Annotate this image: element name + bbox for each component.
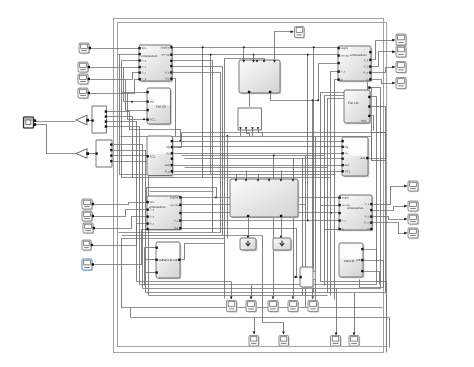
wire C2 b3 [252,131,254,137]
wire band fill2 [185,167,328,169]
svg-text:SCL: SCL [345,169,351,173]
svg-text:ATMEGA8535: ATMEGA8535 [141,55,158,58]
wire cbusA v1 [302,159,304,296]
wire rloop box [372,133,386,161]
wire bottom h1 [137,281,232,283]
wire R2 o4 [371,116,374,131]
wire loop boundary A [114,19,384,353]
block C2 white subsystem [238,108,262,130]
svg-text:P_b: P_b [142,66,147,69]
wire R1 to d2 [372,52,394,67]
svg-text:O: O [367,228,369,231]
block A1 mcu subsystem [138,45,173,82]
wire R1 to d4 [372,80,394,84]
wire band h3 [185,158,343,160]
wire f3 feed [273,156,275,299]
block C1 display subsystem [239,60,281,94]
svg-text:ATMEGA8535: ATMEGA8535 [149,206,166,209]
wire m1 o4 down [107,127,140,285]
wire R1 bottom to R2 [367,82,369,91]
junction A2 p3 [143,118,145,120]
arrowhead e3 [404,218,407,221]
block C4 sink [240,238,257,251]
svg-text:P_y: P_y [174,220,179,223]
block s4 source [78,88,90,99]
wire bus to A2 p1 [124,101,148,103]
wire A4 feedback loop [147,188,217,203]
block A2 function library [146,88,171,125]
wire R4 p5 feed [325,229,340,231]
junction sevsig right [307,54,309,56]
svg-text:Pu: Pu [166,151,170,155]
svg-text:sev sig: sev sig [341,55,350,58]
svg-text:ATMEGA8535: ATMEGA8535 [347,207,364,210]
block s3 source [78,74,90,85]
wire A5 in3 [145,272,157,274]
wire s2 to A1 [90,67,140,69]
arrowhead e4 [404,232,407,235]
junction A4 loop [215,196,217,198]
wire A1 out6 drop [173,79,176,137]
block R2 fcn library mirrored [344,86,371,124]
svg-text:Pu: Pu [345,151,349,155]
block f2 scope [246,301,257,313]
svg-text:P_a: P_a [142,60,147,63]
wire R2 o2 [371,96,377,98]
block t1 gain flipped [76,115,89,125]
wire band h7 [122,177,331,179]
wire band h2 [173,153,343,155]
wire A4 loop h2 [150,191,214,193]
arrowhead C4 [247,236,250,239]
arrowhead g1 [253,332,256,335]
wire band fill1 [182,155,325,157]
wire segout mid drop [202,48,204,178]
wire C2 b4 [259,131,263,137]
wire rloop v3 [380,88,382,289]
svg-text:P_c: P_c [150,223,155,226]
svg-text:ATMEGA8535: ATMEGA8535 [350,54,367,57]
block e3 scope [408,214,419,225]
wire t1 to m1 [88,120,93,122]
wire C2 b2 [247,131,250,137]
wire to f1 [231,282,233,299]
wire cbusB v2 [325,96,345,286]
wire drop C1 t1 [243,48,245,63]
wire bus to A2 p3 [128,119,148,121]
svg-text:Out: Out [165,78,169,81]
wire R5 o2 [360,261,384,288]
wire A3 p1 band [173,133,182,148]
wire bottom h7 rise [130,308,132,318]
wire net sevsig [173,54,339,56]
svg-text:SegOut: SegOut [161,46,170,49]
block s5 source [82,199,94,210]
block R5 part library mirrored [339,243,364,278]
block s2 source [78,62,90,73]
wire left bus v1 [119,55,121,175]
block f3 scope [268,301,279,313]
svg-text:out: out [356,258,360,262]
wire bottom h6 [122,239,383,308]
wire A1 out5 drop [173,73,221,233]
arrowhead g2 [282,332,285,335]
wire belowA4 h3 [122,238,225,240]
svg-text:SCL: SCL [142,47,148,50]
arrowhead f3 [272,297,275,300]
block d4 scope [396,78,407,90]
arrowhead f5 [311,297,314,300]
svg-text:SCL: SCL [361,119,367,123]
svg-text:Part Lib: Part Lib [344,259,355,263]
wire s7 to A4 [94,217,148,229]
arrowhead d1 [392,39,395,42]
svg-text:SCL: SCL [150,154,156,158]
wire s3 to A1 [90,73,140,80]
block A3 interface subsystem [146,136,173,177]
block A5 part library [155,242,181,279]
wire R4 to e2 [373,207,406,211]
block R4 mcu mirrored 2 [338,195,373,231]
wire src to t1 [34,121,76,123]
svg-text:Part Lib: Part Lib [162,258,173,262]
wire band h0c [173,141,343,143]
wire belowA4 h1 [119,232,221,234]
wire C6 feed [275,32,293,63]
block src signal builder [24,117,37,128]
svg-text:Fcn Lib: Fcn Lib [348,101,359,105]
wire R3 out [369,158,386,160]
wire cbusB v1 [321,93,387,282]
wire s9 to A4 [93,230,148,265]
wire left bus v2 [121,61,123,178]
block s1 source [79,43,91,54]
wire R2 o3 [371,106,386,108]
ports R2 right [361,96,370,123]
wire right edge w2 [389,318,391,348]
wire R2 o1 [371,87,381,89]
wire gap v 227 [227,137,229,239]
wire s5 to A4 [93,203,148,205]
wire s1 to A1 [91,48,140,50]
svg-text:P_w: P_w [364,222,369,225]
wire cbusA v3 from sevsig [307,55,309,221]
svg-text:P_w: P_w [363,72,368,75]
block h2 scope [349,336,360,348]
wire R1 p3 riser [319,64,339,101]
block h1 scope [331,336,342,348]
svg-text:SegIN: SegIN [341,47,348,50]
wire A5 in1 [145,247,157,249]
block f5 scope [308,301,319,313]
wire t2 to m2 [88,153,97,155]
svg-text:SCL: SCL [150,118,156,122]
wire to h1 [336,289,338,335]
block C3 main subsystem [230,179,299,218]
svg-text:sev sig: sev sig [161,54,170,57]
wire band h1 [173,146,343,148]
junction segout drop [243,46,245,48]
wire R5 o1 [364,250,377,263]
wire m2 o1 down [114,145,143,289]
block d3 scope [396,62,407,74]
wire src to t2 [34,125,76,154]
wire to g2 [263,236,284,334]
wire loop boundary B [118,23,387,347]
wire R4 to e4 [373,223,406,234]
arrowhead h1 [335,333,338,336]
svg-text:aux: aux [361,156,366,160]
svg-text:SegOut: SegOut [170,196,179,199]
wire A4 out4 [182,220,309,222]
svg-text:P_y: P_y [165,71,170,74]
junction gap v 227 [227,135,229,137]
block m1 demux [91,106,107,133]
block s7 source [83,223,95,234]
wire net segout [173,47,339,49]
wire band h5 [173,171,343,173]
block s8 source [82,240,93,251]
wire band h4 [173,165,343,167]
wire to g1 [254,318,256,334]
block e1 scope [408,181,419,192]
wire cbusA v4 from segout [313,48,315,293]
wire cbusB v3 [328,99,345,293]
wire R4 to e3 [373,217,406,220]
svg-text:O: O [366,78,368,81]
wire m2 o4 down [114,162,149,296]
wire drop C3 t1 [236,175,238,182]
svg-text:osc: osc [150,100,155,104]
wire bottom h2 [140,284,377,286]
wire A1 out4 drop [173,67,223,236]
wire s8 to A4 [92,224,148,246]
block C6 scope [295,27,306,39]
wire rloop v4 [385,107,387,293]
svg-text:out: out [173,258,177,262]
svg-text:Out: Out [174,227,178,230]
block f4 scope [288,301,299,313]
junction segout mid [202,46,204,48]
svg-text:Ny: Ny [166,145,170,149]
wire C1 to C2 [249,94,251,107]
wire bus to A2 p0 [122,92,148,94]
wire drop C3 t4 [269,178,271,182]
wire belowA4 h2 [122,235,263,237]
wire bus to A2 p2 [126,110,148,112]
svg-text:P_z: P_z [341,71,346,74]
wire C2 b1 [240,131,242,137]
wire band h0b [121,136,372,138]
svg-text:P_a: P_a [150,209,155,212]
wire to h2 [354,293,356,335]
wire R1 to d1 [372,41,394,60]
wire big loop C1 t3 [225,59,265,299]
svg-text:Fcn Lib: Fcn Lib [156,105,166,109]
wire m2 o2 down [114,151,146,293]
block e2 scope [408,201,419,212]
wire C1 out2 [271,94,319,101]
arrowhead f1 [230,297,233,300]
wire bottom h7 [131,317,390,319]
arrowhead d4 [392,82,395,85]
junction segout right [313,46,315,48]
wire bottom h5 [149,295,328,297]
junction f3 feed [273,155,275,157]
block R3 interface mirrored [341,137,369,177]
svg-text:Ny: Ny [345,145,349,149]
wire m1 o2 down [107,117,133,178]
wire R4 p2 feed [321,205,340,207]
junction R4 p4 [307,220,309,222]
svg-text:P_1: P_1 [364,59,369,62]
svg-text:P_2: P_2 [365,216,370,219]
svg-text:aux: aux [345,163,350,167]
block R1 mcu mirrored [337,46,372,82]
wire bottom h4 [146,292,386,294]
icon C5 down arrow [280,241,284,246]
wire s4 to A1 [90,80,140,94]
wire A5 in2 [145,259,157,261]
wire drop C3 t5 [281,171,283,182]
wire rloop v2 [376,97,378,285]
wire to f2 [251,285,253,299]
wire R4 to e1 [373,187,406,205]
svg-text:P_z: P_z [342,220,347,223]
wire A4 segout to R4 [182,197,340,199]
wire A5 out loop [181,244,225,260]
svg-text:P_2: P_2 [364,66,369,69]
wire band h0a [182,132,386,134]
arrowhead f4 [292,297,295,300]
wire drop C1 t2 [253,55,255,63]
svg-text:P_1: P_1 [365,203,370,206]
arrowhead C5 [280,236,283,239]
junction f5 feed [312,99,314,101]
wire drop C3 t3 [258,175,260,182]
wire s6 to A4 [94,210,148,217]
wire left bus v5 [127,94,129,120]
wire R1 p4 riser [331,72,339,296]
wire A4 out3 [182,212,363,214]
wire cbusA v2 [305,156,307,308]
wire drop C3 t6 [293,175,295,182]
arrowhead e2 [404,205,407,208]
block s6 source [82,211,94,222]
junction R1 p3 riser [317,99,319,101]
junction m1o1 h0c [179,140,181,142]
icon C4 down arrow [246,241,250,246]
arrowhead C7 [295,276,298,279]
wire R4 p4 feed [308,220,340,222]
block g2 scope [279,336,290,348]
svg-text:SCL: SCL [150,201,156,204]
arrowhead f2 [250,297,253,300]
block t2 gain flipped [76,149,89,159]
wire left bus v3 [123,68,125,102]
svg-text:sev sig: sev sig [170,204,179,207]
junction A4 out3 [330,212,332,214]
wire rloop v1 [371,88,373,161]
wire R1 p5 riser [335,80,339,300]
wire bus to A1 p2 [118,54,140,56]
wire A4 out2 [182,204,306,206]
wire m2 o3 A3 SCL [114,155,148,157]
wire m1 o1 down [107,112,181,142]
block g1 scope [249,336,260,348]
wire cbusA v5 [315,137,317,301]
wire A1 out3 drop [173,61,213,233]
wire drop C3 t2 [246,171,248,182]
wire R1 to d3 [372,68,394,73]
svg-text:P_b: P_b [150,216,155,219]
svg-text:SegIN: SegIN [342,197,349,200]
wire C3 to C5 [281,218,283,236]
block m2 demux [95,140,112,167]
arrowhead e1 [404,185,407,188]
wire C3 to C4 [248,218,250,236]
block f1 scope [227,301,238,313]
wire A5 left rail [144,248,146,286]
tab C7 side [313,272,316,280]
svg-text:aux: aux [165,163,170,167]
wire bottom h3 [143,288,381,290]
junction sevsig mid [210,54,212,56]
arrowhead d2 [392,50,395,53]
wire sevsig mid drop [210,55,212,175]
block d2 scope [396,46,407,58]
arrowhead d3 [392,66,395,69]
wire bus to A1 p3 [122,60,140,62]
block e4 scope [408,228,419,239]
wire A4 out5 [182,229,298,278]
wire band h6 [120,174,336,176]
block d1 scope [396,34,407,46]
block A4 mcu subsystem 2 [146,196,182,231]
wire f5 feed [312,101,314,299]
svg-text:P_d: P_d [142,78,147,81]
block C7 interface [299,267,314,288]
arrowhead C6 input [291,30,294,33]
wire left bus v4 [125,80,127,111]
wire m1 o3 down [107,122,137,282]
junction A2 p1 [131,101,133,103]
wire R5 o3 [364,272,380,285]
svg-text:P_y: P_y [165,169,171,173]
svg-text:P_c: P_c [142,72,147,75]
wire f4 feed [293,159,295,299]
arrowhead h2 [353,333,356,336]
block C5 sink [273,238,292,251]
wire right edge w1 [386,282,388,353]
junction sevsig drop [253,54,255,56]
block s9 source selected [82,259,94,271]
